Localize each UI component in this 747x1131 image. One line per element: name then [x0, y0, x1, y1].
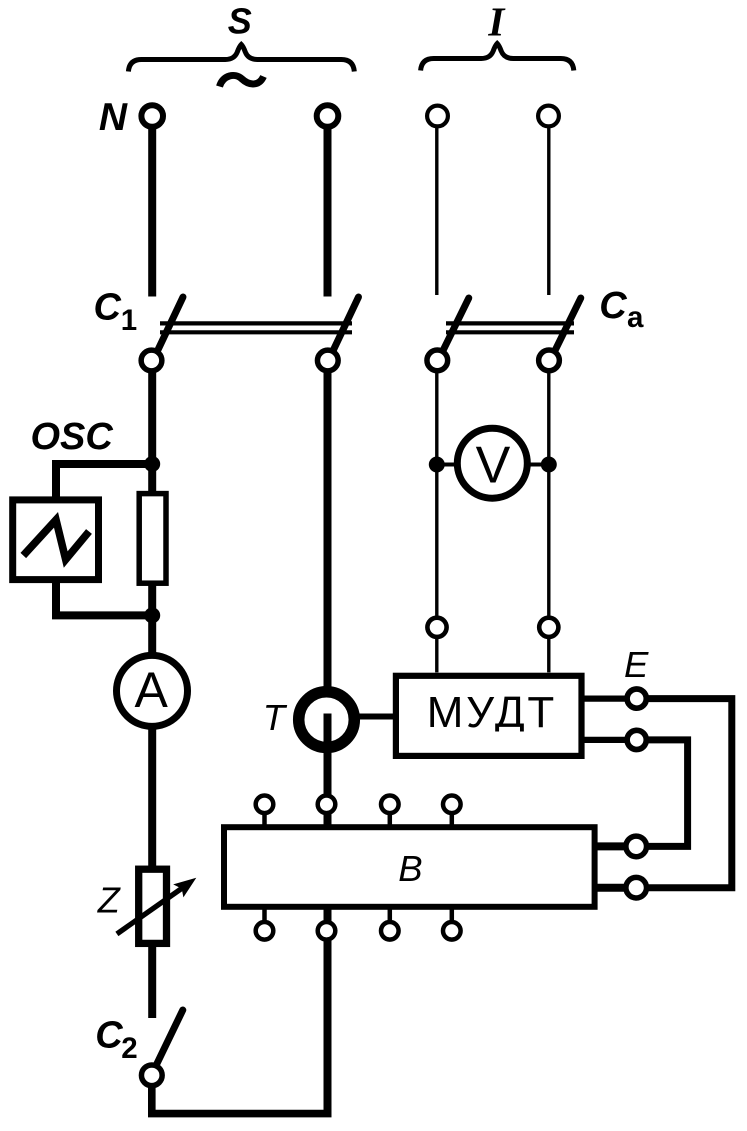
svg-text:C: C — [599, 285, 627, 327]
svg-text:C: C — [95, 1014, 123, 1056]
svg-text:B: B — [398, 848, 422, 889]
svg-text:1: 1 — [121, 304, 137, 337]
svg-text:OSC: OSC — [31, 416, 114, 458]
svg-text:Z: Z — [97, 880, 121, 921]
svg-text:V: V — [476, 436, 511, 494]
svg-text:2: 2 — [121, 1032, 137, 1065]
svg-text:S: S — [228, 1, 252, 42]
svg-text:C: C — [94, 287, 122, 329]
svg-text:I: I — [487, 0, 506, 44]
svg-text:E: E — [624, 644, 649, 685]
svg-text:T: T — [263, 697, 288, 738]
svg-text:a: a — [627, 301, 644, 334]
svg-text:МУДТ: МУДТ — [427, 688, 557, 737]
svg-text:N: N — [99, 96, 128, 139]
svg-text:A: A — [135, 662, 169, 718]
